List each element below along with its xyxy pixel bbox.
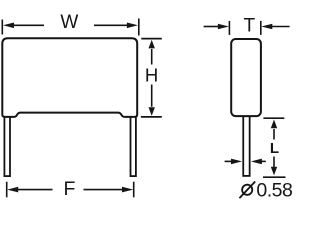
dimension L extension line top: [263, 117, 284, 119]
dimension F line right segment with arrow: [84, 187, 134, 193]
svg-text:F: F: [63, 178, 75, 200]
dimension F extension tick left: [6, 182, 8, 198]
dimension T extension tick left: [228, 21, 230, 35]
svg-text:T: T: [243, 15, 255, 36]
dimension L line top arrow: [271, 120, 277, 140]
dimension W line left segment with arrow: [3, 23, 44, 29]
dimension T extension tick right: [260, 21, 262, 35]
dimension W line right segment with arrow: [94, 23, 138, 29]
capacitor front-view right lead: [131, 114, 136, 176]
dimension W extension line right: [138, 19, 140, 36]
capacitor body side view: [231, 39, 261, 116]
dimension H extension line bottom: [141, 116, 162, 118]
svg-text:0.58: 0.58: [256, 180, 292, 202]
diameter symbol slash: [239, 182, 255, 199]
svg-text:L: L: [270, 140, 279, 157]
svg-text:W: W: [60, 12, 78, 33]
svg-text:H: H: [145, 64, 158, 85]
lead diameter arrow right: [251, 159, 266, 165]
lead diameter arrow left: [225, 159, 242, 165]
dimension W extension line left: [1, 20, 3, 35]
capacitor side-view lead: [243, 114, 249, 176]
diameter symbol circle: [242, 185, 252, 195]
dimension H line top arrow: [149, 40, 155, 65]
dimension L extension line bottom: [263, 176, 286, 178]
dimension T line left segment with arrow: [204, 24, 229, 30]
dimension L line bottom arrow: [271, 157, 277, 176]
capacitor front-view left lead: [4, 114, 10, 176]
dimension H line bottom arrow: [149, 85, 155, 116]
dimension T line right segment with arrow: [261, 24, 289, 30]
dimension H extension line top: [141, 38, 162, 40]
capacitor body front view: [2, 38, 137, 117]
dimension F line left segment with arrow: [7, 187, 52, 193]
dimension F extension tick right: [133, 182, 135, 198]
